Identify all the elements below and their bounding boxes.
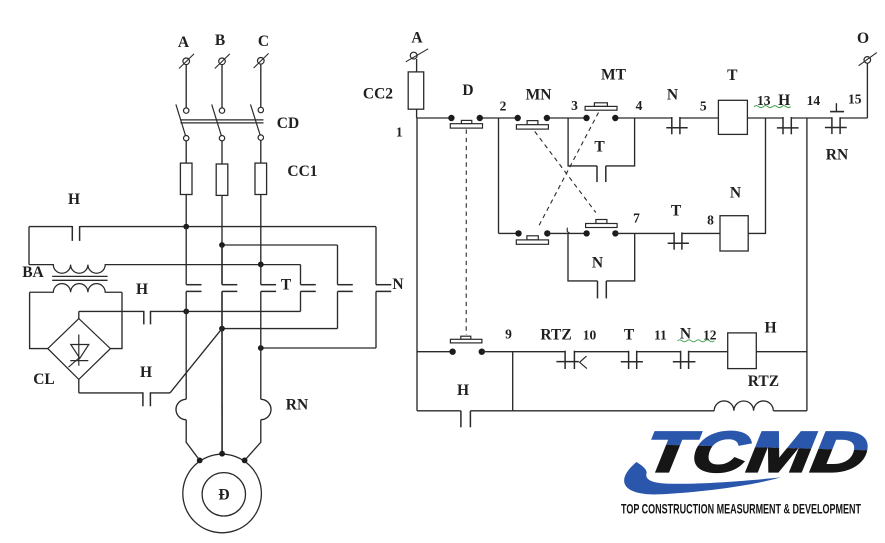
switch CD pole B bottom contact [219,136,224,141]
wire row1 left segment [29,226,72,228]
wire contact6 bottom to phase C [261,347,376,349]
svg-text:2: 2 [500,99,507,114]
wire phase A vertical lower [185,311,187,399]
svg-text:CC1: CC1 [287,163,317,180]
rectifier CL diode symbol [69,335,89,368]
svg-text:15: 15 [848,92,862,107]
mechanical link D to H button (dashed) [465,130,467,336]
wire row2 seg d [682,232,720,234]
svg-text:10: 10 [583,328,597,343]
motor D inner circle [202,473,245,516]
svg-text:3: 3 [571,98,578,113]
wire phase B vertical middle [221,291,223,328]
wire contact6 lower [375,291,377,348]
wire fuse CC2 down [416,109,418,118]
svg-text:T: T [671,203,682,220]
wire row3 seg e [689,351,728,353]
switch CD pole A blade [176,104,186,136]
wire CD pole C to fuse [260,140,262,163]
wire CD pole B to fuse [221,141,223,164]
wire row4 seg c [773,410,807,412]
svg-text:H: H [764,320,776,337]
button MT bridge bar [585,106,617,110]
contact H row1 bars [783,117,791,134]
wire phase A to motor [186,420,200,461]
button MT stem [594,103,607,107]
svg-text:N: N [392,276,403,293]
svg-text:8: 8 [707,213,714,228]
svg-text:CC2: CC2 [363,86,393,103]
coil H (braking contactor) [728,333,757,369]
svg-text:H: H [778,92,790,109]
transformer BA core [52,276,107,280]
wire fuse B down [221,195,223,245]
contact H2 bars [144,311,151,325]
switch CD pole A top contact [184,108,189,113]
contact RTZ bars [565,351,574,369]
button MT contact dots [583,115,618,121]
contact T row2 bars [674,232,682,249]
button MN contact dots [515,115,551,121]
button MN lower contact dots [515,230,550,236]
svg-text:H: H [136,281,148,298]
button MN bridge bar [516,125,548,129]
button D bridge bar [450,124,482,128]
contact H row1 crossbar [777,127,799,129]
wire N-holding branch right [606,233,634,281]
svg-text:11: 11 [654,328,667,343]
coil T (forward contactor) [718,100,747,134]
svg-text:C: C [258,33,269,50]
svg-text:N: N [667,87,678,104]
contact T row3 bars [629,351,637,369]
transformer BA primary winding [29,265,301,274]
button MN stem [527,121,538,125]
wire H3 row left [79,392,143,394]
wire row2 seg a [499,232,519,234]
thermal element RN phase C [261,399,271,419]
svg-text:MT: MT [601,67,627,84]
wire row1 right segment to N-contact column [80,226,376,228]
wire H3 row right [150,392,170,394]
button MN lower stem [527,236,538,240]
svg-text:N: N [592,255,603,272]
TCMD logo lettering (blue upper part) [641,421,872,485]
wire phase C vertical lower [260,348,262,399]
wire control terminal to fuse CC2 [416,59,418,72]
wire rectifier plus output [78,311,80,318]
wire phase C vertical middle [260,291,262,348]
svg-text:BA: BA [22,264,44,281]
wire T-holding branch right [606,118,635,166]
wire rectifier minus output [78,379,80,393]
coil RTZ (time relay) [714,401,773,411]
svg-text:T: T [281,277,292,294]
contact N holding bars [598,281,607,299]
svg-text:RN: RN [286,397,308,414]
button MT lower bridge bar [586,224,618,228]
wire phase B vertical upper [221,245,223,285]
svg-text:H: H [140,364,152,381]
wire fuse C down [260,195,262,265]
contact RN bars [832,117,840,134]
wire phase A vertical upper [185,227,187,285]
wire left rail down to transformer [28,227,30,265]
button D contact dots [448,115,483,121]
wire row3 seg f [756,351,807,353]
rectifier CL bridge diamond [48,319,111,380]
contact T holding bars [597,166,606,182]
wire row2 seg c [615,232,674,234]
control supply terminal (circle with slash) [406,49,428,62]
wire contact5 lower [337,291,339,328]
switch CD pole B top contact [219,108,224,113]
button H bridge bar [450,339,482,343]
svg-text:RTZ: RTZ [540,327,571,344]
switch CD pole C blade [251,104,261,135]
wire row1 seg Ncontact-Tcoil [680,117,719,119]
wire phase B drop to switch CD [221,65,223,108]
svg-text:14: 14 [807,93,821,108]
junction dot phase B row2 [219,242,225,248]
mechanical link MT to MN-lower (dashed) [539,113,599,226]
wire contact4 lower [300,291,302,311]
junction dot phase A row H2 [183,309,189,315]
supply terminal B (circle with slash) [215,54,230,69]
contact T phase C ticks [261,285,276,292]
button MN lower bridge bar [516,240,548,244]
svg-text:5: 5 [700,99,707,114]
spellcheck squiggle under N 12 [678,340,715,342]
wire row2 branch vertical [498,118,500,233]
contact H row4 bars [461,411,471,428]
svg-text:CL: CL [33,371,55,388]
svg-text:B: B [215,32,225,49]
TCMD logo swoosh [624,462,781,494]
wire hop mark row2 [567,228,570,234]
transformer BA secondary winding [30,284,122,293]
contact RN thermal marker [830,103,844,111]
fuse CC1 phase C [255,163,267,194]
svg-text:RTZ: RTZ [748,373,779,390]
contact N row3 bars [681,351,689,369]
wire phase A vertical middle [185,291,187,311]
svg-text:T: T [624,327,635,344]
motor terminal dot left [197,458,203,464]
wire row1 seg rail-D [417,117,451,119]
contact H3 bars [143,392,151,406]
contact RTZ crossbar [556,361,578,363]
wire row1 to O terminal [866,63,868,118]
wire row1 seg Tcoil-Hcontact [747,117,783,119]
control terminal O (circle with slash) [859,53,877,66]
motor terminal dot middle [219,451,225,457]
wire H2 row left [79,310,144,312]
wire row1 seg D-MN [480,117,518,119]
switch CD pole B blade [212,104,222,136]
contact N row1 bars [672,117,680,134]
wire row3 branch vertical [512,352,514,411]
svg-text:H: H [457,382,469,399]
wire row2 phase B to N column [222,244,338,246]
wire row2 seg b [547,232,586,234]
switch CD pole C top contact [258,107,263,112]
fuse CC1 phase A [180,163,192,194]
svg-text:7: 7 [633,211,640,226]
junction dot phase C row3 [258,262,264,268]
supply terminal C (circle with slash) [254,53,269,68]
contact T phase A ticks [186,285,201,292]
svg-text:12: 12 [703,328,717,343]
switch CD pole A bottom contact [184,136,189,141]
wire fuse A down [185,195,187,227]
wire row3 seg c [574,351,628,353]
button H contact dots [449,349,485,355]
contact N col5 ticks [338,285,353,292]
wire phase C vertical upper [260,264,262,284]
TCMD logo lettering (black lower part) [641,421,872,485]
svg-text:A: A [411,30,423,47]
svg-text:A: A [178,34,190,51]
wire row1 seg Hcontact-RN [791,117,832,119]
supply terminal A (circle with slash) [179,54,194,69]
contact N row3 crossbar [673,361,696,363]
wire secondary right down to rectifier [110,292,122,348]
mechanical link MN to MT-lower (dashed) [535,132,596,213]
contact T row3 crossbar [621,361,643,363]
wire N column 6 upper [375,227,377,285]
wire N column 5 upper [337,245,339,285]
thermal element RN phase A [176,399,186,419]
svg-text:1: 1 [396,124,403,139]
wire phase C drop to switch CD [260,64,262,108]
svg-text:D: D [462,82,473,99]
svg-text:MN: MN [526,87,552,104]
button MT lower contact dots [583,230,618,236]
junction dot phase B lower [219,326,225,332]
svg-text:RN: RN [826,146,848,163]
svg-text:T: T [727,67,738,84]
wire row1 seg RN-O [840,117,867,119]
wire row3 seg d [637,351,681,353]
wire contact5 bottom to phase B [222,328,338,330]
svg-text:Đ: Đ [218,487,229,504]
motor D outer circle [183,454,262,533]
contact T phase B ticks [222,285,237,292]
button MT lower stem [596,220,607,224]
svg-text:TOP CONSTRUCTION MEASURMENT &: TOP CONSTRUCTION MEASURMENT & DEVELOPMEN… [621,501,861,517]
contact H1 bars [72,226,79,241]
junction dot phase A row1 [183,224,189,230]
svg-text:9: 9 [505,327,512,342]
wire row1 seg MT-Ncontact [615,117,672,119]
contact N col6 ticks [376,285,391,292]
spellcheck squiggle under 13 H [754,106,791,108]
wire phase A drop to switch CD [185,65,187,108]
wire N-holding branch left [568,233,598,281]
motor terminal dot right [242,458,248,464]
wire T-holding branch left [568,118,597,166]
wire node13 down to N coil [748,118,765,233]
svg-text:4: 4 [636,98,643,113]
wire diagonal H3 to phase B node [170,329,222,393]
wire CD pole A to fuse [185,141,187,163]
button H stem [461,336,471,339]
wire row1 seg MN-MT [547,117,587,119]
switch CD pole C bottom contact [258,135,263,140]
wire phase B to motor [221,329,223,454]
wire row4 seg b [470,410,714,412]
wire phase C to motor [245,420,261,461]
fuse CC1 phase B [216,164,228,195]
contact T row2 crossbar [668,242,689,244]
fuse CC2 [408,72,424,109]
svg-text:O: O [857,30,869,47]
junction dot phase C lower [258,345,264,351]
svg-text:N: N [730,185,741,202]
control left rail [416,118,418,411]
contact N row1 crossbar [666,127,687,129]
contact RTZ delay chevron [580,356,587,369]
wire row4 seg a [417,410,461,412]
wire H2 row right to N-contact column [151,310,301,312]
wire secondary left down to rectifier [30,292,48,348]
button D stem [461,120,471,123]
control right rail (node14 down) [806,118,808,411]
svg-text:T: T [594,139,605,156]
contact N col4 ticks [301,285,316,292]
wire row3 corner down to contact 4 [300,265,302,285]
svg-text:CD: CD [277,115,299,132]
wire row3 seg b [482,351,565,353]
contact RN crossbar [825,127,847,129]
wire row3 seg rail-H [417,351,453,353]
switch CD linkage bar [181,120,264,123]
svg-text:H: H [68,191,80,208]
coil N (reverse contactor) [720,216,748,251]
